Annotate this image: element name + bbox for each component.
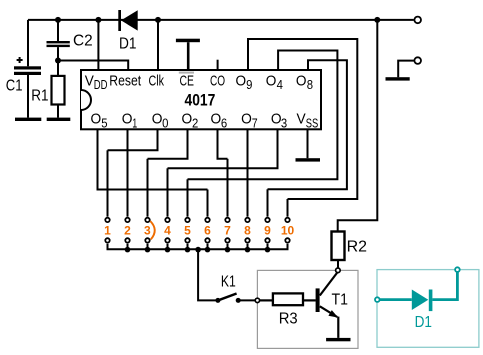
- svg-text:O: O: [296, 73, 307, 90]
- svg-text:6: 6: [221, 116, 227, 131]
- svg-text:4017: 4017: [185, 91, 216, 110]
- svg-text:8: 8: [307, 77, 313, 92]
- svg-text:O: O: [122, 110, 133, 127]
- svg-text:V: V: [85, 73, 94, 90]
- svg-text:C2: C2: [73, 32, 93, 49]
- svg-text:K1: K1: [221, 274, 236, 291]
- svg-text:CE: CE: [180, 73, 195, 90]
- svg-text:8: 8: [244, 223, 251, 237]
- svg-text:7: 7: [224, 223, 231, 237]
- svg-text:O: O: [91, 110, 102, 127]
- svg-text:D1: D1: [415, 314, 432, 331]
- svg-text:3: 3: [144, 223, 151, 237]
- svg-text:R3: R3: [279, 310, 298, 327]
- svg-text:Reset: Reset: [109, 73, 142, 90]
- svg-text:0: 0: [162, 116, 168, 131]
- svg-text:5: 5: [101, 116, 107, 131]
- svg-text:9: 9: [246, 77, 252, 92]
- svg-text:O: O: [152, 110, 163, 127]
- svg-text:O: O: [182, 110, 193, 127]
- svg-text:2: 2: [124, 223, 131, 237]
- svg-text:6: 6: [204, 223, 211, 237]
- svg-text:DD: DD: [94, 77, 108, 92]
- svg-text:CO: CO: [210, 73, 225, 90]
- svg-text:O: O: [266, 73, 277, 90]
- svg-text:2: 2: [192, 116, 198, 131]
- svg-text:C1: C1: [6, 78, 23, 95]
- svg-text:SS: SS: [306, 116, 319, 131]
- svg-text:5: 5: [184, 223, 191, 237]
- svg-text:3: 3: [281, 116, 287, 131]
- svg-text:O: O: [236, 73, 247, 90]
- svg-text:4: 4: [164, 223, 171, 237]
- svg-text:9: 9: [264, 223, 271, 237]
- svg-text:1: 1: [104, 223, 111, 237]
- svg-text:R1: R1: [31, 88, 48, 105]
- svg-text:Clk: Clk: [149, 73, 165, 90]
- svg-text:4: 4: [277, 77, 283, 92]
- svg-text:O: O: [211, 110, 222, 127]
- svg-text:R2: R2: [347, 238, 367, 255]
- svg-text:7: 7: [252, 116, 258, 131]
- svg-text:D1: D1: [119, 36, 137, 53]
- svg-text:V: V: [297, 110, 306, 127]
- svg-text:1: 1: [132, 116, 137, 131]
- svg-text:10: 10: [281, 223, 295, 237]
- svg-text:O: O: [241, 110, 252, 127]
- svg-text:T1: T1: [332, 292, 349, 309]
